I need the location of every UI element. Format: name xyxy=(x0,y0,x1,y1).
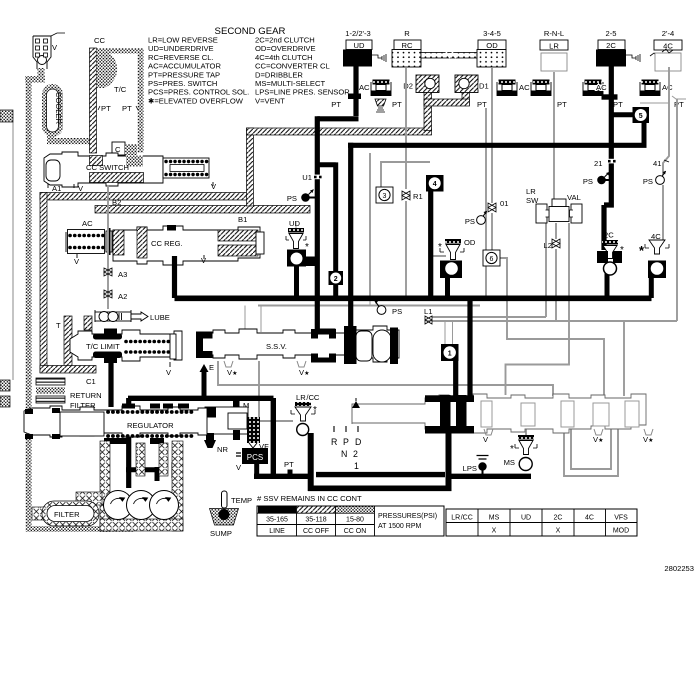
svg-text:CC: CC xyxy=(94,36,105,45)
svg-text:PT: PT xyxy=(674,100,684,109)
sump pickup xyxy=(210,509,239,539)
wire far-right return xyxy=(676,99,678,321)
thick line: UD feed bus (y145) xyxy=(348,143,613,148)
solenoid state table xyxy=(446,509,637,536)
hatched stem below D1 xyxy=(462,93,470,105)
svg-text:LINE: LINE xyxy=(269,528,285,535)
svg-text:COOLER: COOLER xyxy=(54,92,63,125)
2C clutch bleed arrow xyxy=(626,54,640,62)
hatched wall left of T/C limit xyxy=(64,316,72,368)
svg-text:AC: AC xyxy=(82,219,93,228)
svg-text:*: * xyxy=(438,242,442,253)
wire UD sol feed xyxy=(295,222,297,228)
thick line: U1 main vertical to SSV xyxy=(315,116,320,332)
solenoid UD xyxy=(286,219,318,267)
thick line: E port riser xyxy=(202,372,207,398)
cooler outlet pipe xyxy=(47,135,54,144)
CC REG spring (hatched chamber) xyxy=(218,230,258,241)
valve torque conv control (NR) xyxy=(204,407,248,454)
regulator springs xyxy=(108,410,196,414)
connector A2 xyxy=(104,290,127,301)
svg-text:R: R xyxy=(404,29,410,38)
svg-text:PS: PS xyxy=(287,194,297,203)
svg-text:OD: OD xyxy=(486,41,498,50)
SSV vent V* left xyxy=(224,361,237,377)
svg-text:2802253: 2802253 xyxy=(664,564,694,573)
port E arrow xyxy=(209,363,214,372)
svg-text:2C=2nd CLUTCH: 2C=2nd CLUTCH xyxy=(255,36,315,45)
wire circled6 outlet xyxy=(500,258,604,395)
svg-text:E: E xyxy=(209,363,214,372)
thermometer TEMP xyxy=(222,491,253,508)
thick line: PCS output gallery (y476) xyxy=(254,474,312,479)
svg-text:NR: NR xyxy=(217,445,228,454)
pump enclosure walls xyxy=(100,441,183,531)
svg-text:21: 21 xyxy=(594,159,602,168)
thick line: PCS drop xyxy=(254,462,259,476)
CC REG valve body xyxy=(113,226,260,265)
connector L2 xyxy=(544,239,560,250)
svg-text:CC OFF: CC OFF xyxy=(303,528,329,535)
LR clutch chamber (empty) xyxy=(541,53,567,71)
thick line: 4C sol connection xyxy=(649,277,654,298)
dribbler block D2 xyxy=(403,75,439,93)
svg-text:LUBE: LUBE xyxy=(150,313,170,322)
svg-text:2: 2 xyxy=(334,276,338,283)
junction box 6 xyxy=(483,250,500,266)
svg-text:TEMP: TEMP xyxy=(231,496,252,505)
wire upper gallery xyxy=(258,305,480,307)
svg-text:S.S.V.: S.S.V. xyxy=(266,342,287,351)
E port arrow xyxy=(200,364,209,372)
pressure switch PS (OD, open) xyxy=(465,211,487,226)
pressure table xyxy=(257,506,444,536)
svg-text:U1: U1 xyxy=(302,173,312,182)
svg-text:A3: A3 xyxy=(118,270,127,279)
svg-text:SW: SW xyxy=(526,196,539,205)
SSV left end plug (black) xyxy=(196,332,213,359)
svg-text:1: 1 xyxy=(354,461,359,471)
torque converter enclosure top (stippled) xyxy=(97,48,144,54)
valve LR SW xyxy=(536,199,582,223)
svg-text:PT: PT xyxy=(331,100,341,109)
CC REG hatched lands xyxy=(113,230,124,255)
svg-text:SUMP: SUMP xyxy=(210,529,232,538)
svg-text:LR=LOW REVERSE: LR=LOW REVERSE xyxy=(148,36,218,45)
svg-text:CC=CONVERTER CL: CC=CONVERTER CL xyxy=(255,62,330,71)
pressure switch PS (line, open) xyxy=(375,301,403,317)
manual valve vent V* right xyxy=(643,429,653,444)
cooler xyxy=(42,84,63,137)
thick line: UD sol connection xyxy=(294,265,299,298)
svg-text:PRESSURES(PSI): PRESSURES(PSI) xyxy=(378,513,437,520)
pressure switch PS (4C, open) xyxy=(643,171,666,186)
clutch RC chamber (dotted fill) xyxy=(392,50,421,68)
connector A3 xyxy=(104,268,127,279)
svg-text:2C: 2C xyxy=(604,231,614,240)
svg-text:OD=OVERDRIVE: OD=OVERDRIVE xyxy=(255,44,316,53)
T/C LIMIT spring xyxy=(126,340,170,344)
SSV inlet clamp bottom xyxy=(311,354,336,363)
thick line: bus extension to orifice 5 xyxy=(611,143,647,148)
connector 01 xyxy=(488,199,508,212)
thick line: main line pressure bus (y298) xyxy=(175,295,652,301)
svg-text:PT: PT xyxy=(122,104,132,113)
manual valve black section xyxy=(425,395,474,402)
vent V (top left) xyxy=(33,33,65,69)
svg-text:PS: PS xyxy=(465,217,475,226)
svg-text:MS: MS xyxy=(489,515,500,522)
solenoid PCS xyxy=(236,448,268,472)
svg-text:R1: R1 xyxy=(413,192,423,201)
CC SWITCH hatched spool land xyxy=(90,156,103,166)
CC SWITCH stipple plug xyxy=(126,156,143,167)
svg-text:PT: PT xyxy=(284,460,294,469)
svg-text:LPS=LINE PRES. SENSOR: LPS=LINE PRES. SENSOR xyxy=(255,88,350,97)
thick line: drop to SSV plunger xyxy=(348,143,353,330)
sensor LPS xyxy=(463,456,489,477)
svg-text:PS: PS xyxy=(392,307,402,316)
solenoid M stem xyxy=(230,398,249,418)
svg-text:AC: AC xyxy=(359,83,370,92)
wire PT 479 drop xyxy=(485,108,487,296)
thick line: regulator to pump jog xyxy=(126,467,157,481)
svg-text:PCS=PRES. CONTROL SOL.: PCS=PRES. CONTROL SOL. xyxy=(148,88,249,97)
svg-text:X: X xyxy=(556,528,561,535)
accumulator AC (2C) xyxy=(583,80,607,97)
thick line: 2C sol connection xyxy=(605,273,610,298)
orifice 1 xyxy=(441,344,459,361)
clutch 2C piston (applied, black) xyxy=(596,50,626,67)
clutch UD piston (applied, black) xyxy=(343,50,372,67)
pipe A3 branch line xyxy=(107,185,109,309)
svg-text:AC: AC xyxy=(519,83,530,92)
thick line: regulator drop (left) xyxy=(126,398,131,488)
wire SSV drain gallery xyxy=(218,361,553,396)
svg-text:REGULATOR: REGULATOR xyxy=(127,421,174,430)
svg-text:LR /CC: LR /CC xyxy=(296,393,320,402)
svg-text:*: * xyxy=(313,405,317,416)
manual valve lever tip xyxy=(352,401,360,408)
T/C stippled lobe xyxy=(97,50,118,88)
wire SSV to LR/CC sol xyxy=(259,361,293,421)
svg-text:PS: PS xyxy=(583,177,593,186)
wire vent loop under manual valve (outer) xyxy=(564,429,618,476)
legend column 1 xyxy=(148,36,249,106)
orifice 4 xyxy=(426,175,444,192)
svg-text:2'-4: 2'-4 xyxy=(662,29,674,38)
thick line: orifice 5 drop xyxy=(642,121,647,147)
valve S.S.V. body xyxy=(199,326,399,362)
svg-text:41: 41 xyxy=(653,159,661,168)
thick line: gallery to MS and LPS xyxy=(451,474,531,479)
return filter screen xyxy=(36,378,102,410)
pump circles xyxy=(104,491,179,520)
thick line: bus drop to manual valve xyxy=(467,298,472,398)
svg-text:PT: PT xyxy=(477,100,487,109)
4C clutch chamber (empty) xyxy=(650,53,681,71)
svg-text:CC SWITCH: CC SWITCH xyxy=(86,163,129,172)
svg-text:D: D xyxy=(355,437,361,447)
svg-text:R: R xyxy=(331,437,337,447)
clutch OD chamber (dotted fill) xyxy=(477,50,506,68)
torque converter enclosure left wall (hatched) xyxy=(90,48,97,153)
svg-text:L2: L2 xyxy=(544,241,552,250)
svg-text:T: T xyxy=(56,321,61,330)
svg-text:PT: PT xyxy=(392,100,402,109)
svg-text:R-N-L: R-N-L xyxy=(544,29,564,38)
hatched left wall down xyxy=(40,193,47,373)
svg-text:2C: 2C xyxy=(606,41,616,50)
svg-text:# SSV REMAINS IN CC CONT: # SSV REMAINS IN CC CONT xyxy=(257,494,362,503)
svg-text:UD: UD xyxy=(521,515,531,522)
thick line: orifice 2 to main bus xyxy=(333,284,338,299)
thick line: drop to PCS gallery xyxy=(271,398,276,478)
svg-text:1: 1 xyxy=(448,350,452,357)
valve manual (selector) body xyxy=(352,394,646,433)
port C box xyxy=(112,142,142,182)
vent stem pipe (stippled) xyxy=(38,68,45,78)
VF screen xyxy=(247,417,269,451)
svg-text:B2: B2 xyxy=(112,198,121,207)
4C break squiggle xyxy=(662,49,673,53)
thick line: CC REG feed drop xyxy=(172,256,177,298)
svg-text:LR: LR xyxy=(526,187,536,196)
svg-text:5: 5 xyxy=(639,113,643,120)
solenoid 4C xyxy=(639,232,669,278)
svg-text:CC ON: CC ON xyxy=(344,528,367,535)
svg-text:T/C LIMIT: T/C LIMIT xyxy=(86,342,120,351)
svg-text:X: X xyxy=(492,528,497,535)
svg-text:PT: PT xyxy=(613,100,623,109)
svg-text:FILTER: FILTER xyxy=(54,510,80,519)
orifice U1 break xyxy=(313,175,322,180)
selector box bottom xyxy=(308,485,452,491)
accumulator AC (OD) xyxy=(531,80,551,97)
svg-text:PT: PT xyxy=(557,100,567,109)
lube circuit symbol xyxy=(95,310,170,322)
svg-text:B1: B1 xyxy=(238,215,247,224)
svg-text:PT: PT xyxy=(101,104,111,113)
svg-text:35-118: 35-118 xyxy=(305,517,326,524)
junction box 3 xyxy=(376,187,393,203)
accumulator AC (UD) xyxy=(359,80,391,97)
hatched feed duct to dribblers xyxy=(247,128,432,135)
svg-text:VAL: VAL xyxy=(567,193,581,202)
hatched cross duct D2-D1 xyxy=(424,99,470,106)
svg-text:3-4-5: 3-4-5 xyxy=(483,29,501,38)
accumulator AC (4C) xyxy=(640,80,673,97)
svg-text:D=DRIBBLER: D=DRIBBLER xyxy=(255,70,303,79)
solenoid 2C xyxy=(597,231,624,276)
svg-text:2C: 2C xyxy=(554,515,563,522)
CC REG top port (black) xyxy=(167,225,176,231)
svg-text:D1: D1 xyxy=(479,82,489,91)
RC-OD connecting passage xyxy=(421,52,477,58)
bottom stippled wire to sump xyxy=(26,526,134,532)
thick line: UD clutch drop xyxy=(353,64,358,116)
selector box right wall xyxy=(446,430,452,491)
pressure switch PS (2C, closed) xyxy=(583,172,611,186)
left edge port boxes xyxy=(0,110,13,407)
SSV vent V* right xyxy=(297,361,309,377)
CC SWITCH valve body xyxy=(44,152,163,187)
svg-text:LR: LR xyxy=(549,42,559,51)
wire MS stub xyxy=(525,429,527,436)
selector box left wall xyxy=(308,433,314,491)
svg-text:L1: L1 xyxy=(424,307,432,316)
svg-text:AC: AC xyxy=(596,83,607,92)
svg-text:AC: AC xyxy=(662,83,673,92)
SSV right end land (black) xyxy=(390,328,398,365)
svg-text:UD: UD xyxy=(289,219,300,228)
svg-text:VFS: VFS xyxy=(614,515,628,522)
svg-text:01: 01 xyxy=(500,199,508,208)
svg-text:V=VENT: V=VENT xyxy=(255,96,285,105)
solenoid LR/CC xyxy=(291,393,320,436)
gray pipe network xyxy=(218,67,686,476)
svg-text:35-165: 35-165 xyxy=(266,517,288,524)
svg-text:A2: A2 xyxy=(118,292,127,301)
hatched riser to converter feed xyxy=(247,128,254,206)
wire R1 gallery to circled 3 xyxy=(381,162,430,187)
svg-text:A1: A1 xyxy=(52,184,61,193)
T/C LIMIT valve body xyxy=(70,330,182,361)
thick line: orifice 4 drop xyxy=(428,190,433,298)
thick line: OD sol connection xyxy=(445,277,450,298)
regulator port caps xyxy=(25,404,189,445)
torque converter enclosure right wall (stippled) xyxy=(138,54,144,153)
svg-text:2-5: 2-5 xyxy=(606,29,617,38)
UD clutch bleed arrow xyxy=(372,54,386,62)
suction pipe elbow to left main wire xyxy=(25,76,45,83)
svg-text:RC: RC xyxy=(402,41,413,50)
wires below LR SW xyxy=(545,223,547,317)
svg-text:LR /CC: LR /CC xyxy=(451,515,473,522)
T/C LIMIT black lands xyxy=(93,334,122,340)
svg-text:LPS: LPS xyxy=(463,464,477,473)
thick line: orifice 1 drop to manual valve xyxy=(453,360,458,398)
hatched stem below D2 xyxy=(424,93,432,131)
svg-text:N: N xyxy=(341,449,347,459)
svg-text:PS=PRES. SWITCH: PS=PRES. SWITCH xyxy=(148,79,217,88)
svg-text:*: * xyxy=(510,444,514,455)
wire OD sol left port xyxy=(433,255,446,257)
wire drops to circled 1 xyxy=(445,321,453,345)
wire 4C feed down xyxy=(663,67,669,240)
thick tee on 2C drop xyxy=(602,94,618,99)
hatched drain gallery bottom left xyxy=(40,366,96,374)
connector R1 xyxy=(402,191,423,201)
thick line: 2C clutch drop xyxy=(604,64,614,250)
svg-text:P: P xyxy=(343,437,349,447)
legend column 2 xyxy=(255,36,350,106)
SSV plunger land (black) xyxy=(344,326,357,364)
svg-text:C1: C1 xyxy=(86,377,96,386)
solenoid OD xyxy=(438,238,476,278)
svg-text:PT=PRESSURE TAP: PT=PRESSURE TAP xyxy=(148,70,220,79)
svg-text:4C=4th CLUTCH: 4C=4th CLUTCH xyxy=(255,53,313,62)
pressure switch PS (U1, closed) xyxy=(287,190,315,204)
valve regulator body xyxy=(24,406,207,437)
orifice 5 xyxy=(633,107,650,123)
svg-text:T/C: T/C xyxy=(114,85,127,94)
filter capsule xyxy=(32,492,102,526)
svg-text:PCS: PCS xyxy=(247,453,263,462)
svg-text:15-80: 15-80 xyxy=(346,517,364,524)
wire OD feed down xyxy=(491,68,493,203)
manual valve land details xyxy=(481,401,639,427)
manual valve vent V* mid xyxy=(593,429,603,444)
thick line: UD elbow to U1 branch xyxy=(317,116,358,121)
wire LR feed down xyxy=(553,72,555,201)
svg-text:UD: UD xyxy=(354,41,365,50)
left vertical stippled wire xyxy=(26,76,32,532)
pump port tick xyxy=(172,462,180,478)
svg-text:1-2/2'-3: 1-2/2'-3 xyxy=(345,29,371,38)
thick line: gallery inside selector box xyxy=(316,472,445,477)
connector L1 xyxy=(424,307,432,324)
wire vent loop under manual valve (inner) xyxy=(571,429,611,469)
svg-text:D2: D2 xyxy=(403,82,413,91)
orifice 21 break xyxy=(607,159,616,164)
solenoid MS xyxy=(504,435,537,471)
svg-text:MS: MS xyxy=(504,458,515,467)
pump rotation arrows xyxy=(111,498,171,504)
svg-text:RC=REVERSE CL.: RC=REVERSE CL. xyxy=(148,53,214,62)
svg-text:4C: 4C xyxy=(585,515,594,522)
hatched gallery lower (B1 run) xyxy=(95,206,310,214)
svg-text:CC REG.: CC REG. xyxy=(151,239,183,248)
svg-text:MS=MULTI-SELECT: MS=MULTI-SELECT xyxy=(255,79,325,88)
svg-text:4: 4 xyxy=(433,181,437,188)
svg-text:4C: 4C xyxy=(663,42,673,51)
svg-text:3: 3 xyxy=(383,193,387,200)
manual valve vent V xyxy=(483,429,493,444)
svg-text:MOD: MOD xyxy=(613,528,629,535)
accumulator AC (RC) xyxy=(497,80,530,97)
thick line: T/C limit drop xyxy=(108,360,113,407)
svg-text:RETURN: RETURN xyxy=(70,391,102,400)
svg-text:✱=ELEVATED OVERFLOW: ✱=ELEVATED OVERFLOW xyxy=(148,96,244,105)
svg-text:AT 1500 RPM: AT 1500 RPM xyxy=(378,523,421,530)
svg-text:2: 2 xyxy=(353,449,358,459)
SSV inlet clamp top xyxy=(311,329,336,339)
svg-text:UD=UNDERDRIVE: UD=UNDERDRIVE xyxy=(148,44,214,53)
svg-text:AC=ACCUMULATOR: AC=ACCUMULATOR xyxy=(148,62,221,71)
CC SWITCH spring chamber xyxy=(163,158,209,178)
wire L1 gallery xyxy=(432,316,546,318)
dribbler D (below UD AC) xyxy=(375,99,386,112)
hatched supply gallery upper (B2 run) xyxy=(40,193,253,201)
svg-text:6: 6 xyxy=(490,256,494,263)
S.S.V. spool circles xyxy=(356,331,372,361)
manual lever positions R P D N 2 1 xyxy=(331,426,361,471)
accumulator AC (left, converter) xyxy=(66,219,112,266)
thick line: branch to orifice 2 xyxy=(315,162,336,272)
svg-text:PS: PS xyxy=(643,177,653,186)
thick line: converter feed bus (y398) xyxy=(128,396,274,401)
orifice 2 xyxy=(329,271,344,285)
dribbler block D1 xyxy=(455,75,489,93)
svg-text:OD: OD xyxy=(464,238,476,247)
wire RC feed down xyxy=(405,68,407,189)
